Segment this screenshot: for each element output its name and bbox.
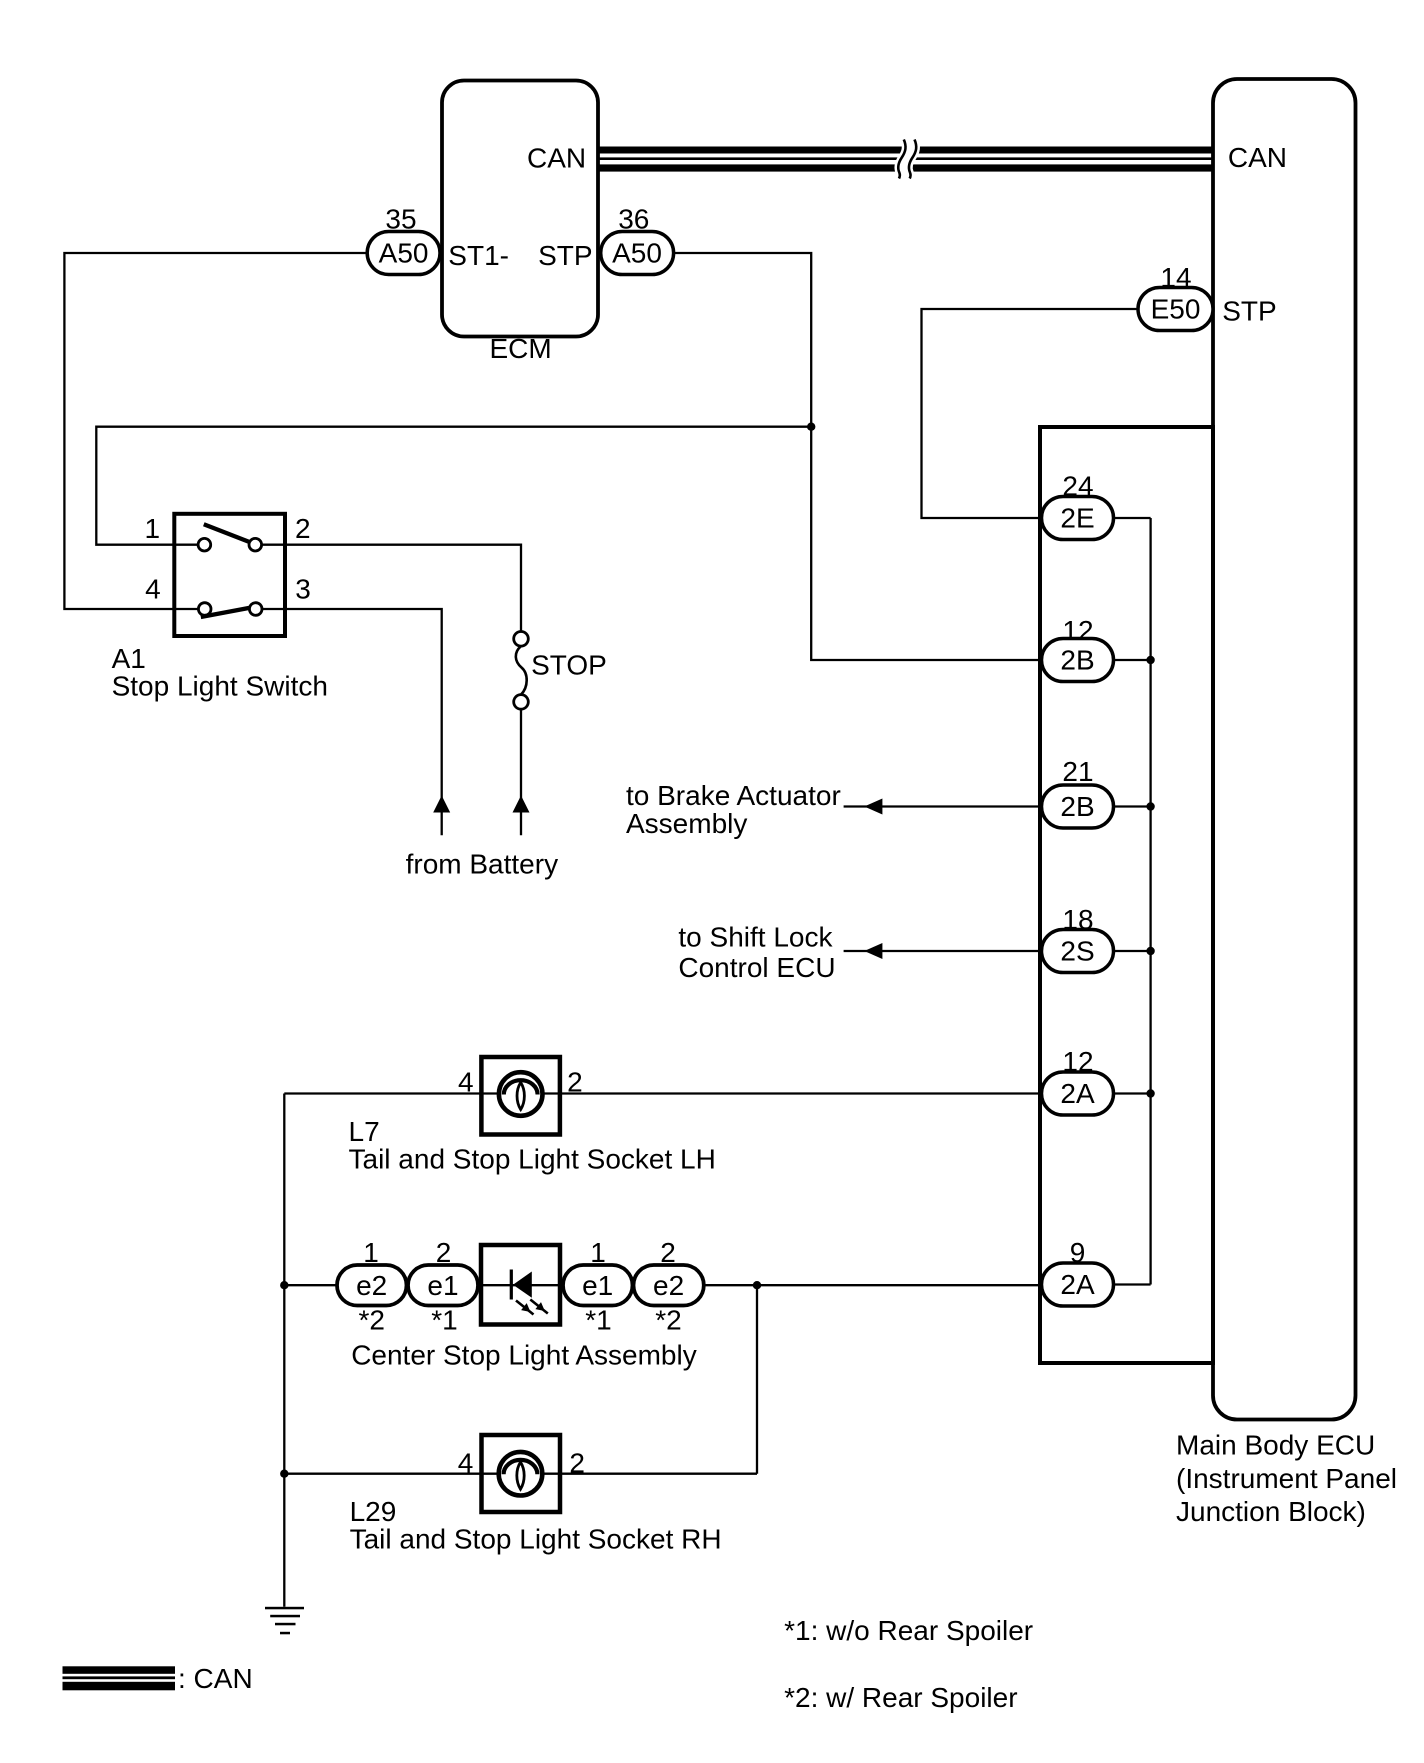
- svg-text:Junction Block): Junction Block): [1176, 1496, 1366, 1527]
- svg-text:2: 2: [295, 513, 311, 544]
- center stop light connector e2 pin 1: [337, 1265, 407, 1306]
- svg-text:CAN: CAN: [527, 143, 586, 174]
- CAN bus break squiggle left: [898, 140, 905, 179]
- svg-text:Main Body ECU: Main Body ECU: [1176, 1430, 1375, 1461]
- svg-text:3: 3: [295, 574, 311, 605]
- stop light switch A1 box: [174, 514, 285, 636]
- svg-text:Tail and Stop Light Socket LH: Tail and Stop Light Socket LH: [349, 1144, 716, 1175]
- connector E50 pin 14: [1138, 288, 1213, 331]
- wire switch pin 3 to battery arrow: [261, 609, 442, 835]
- svg-text:to Shift Lock: to Shift Lock: [678, 922, 833, 953]
- svg-text:2: 2: [569, 1448, 585, 1479]
- wire ST1- lead: A50 pin35 to stop light switch pin 4: [64, 253, 367, 609]
- svg-text:: CAN: : CAN: [178, 1663, 253, 1694]
- svg-text:*2: *2: [358, 1305, 384, 1336]
- svg-text:STP: STP: [538, 240, 592, 271]
- switch contact pin 3: [249, 603, 262, 616]
- svg-text:18: 18: [1062, 904, 1093, 935]
- svg-text:to Brake Actuator: to Brake Actuator: [626, 780, 841, 811]
- L29 bulb: [499, 1452, 543, 1496]
- connector 2A pin 9: [1042, 1263, 1114, 1306]
- connector A50 pin 35: [367, 232, 440, 275]
- svg-text:ECM: ECM: [490, 333, 552, 364]
- STOP fuse bottom circle: [514, 695, 529, 710]
- svg-text:e2: e2: [653, 1270, 684, 1301]
- svg-text:2E: 2E: [1060, 503, 1094, 534]
- junction dot inner rail 2B-12: [1146, 656, 1154, 664]
- svg-text:12: 12: [1062, 1046, 1093, 1077]
- svg-text:STP: STP: [1222, 296, 1276, 327]
- center stop light connector e1 pin 2: [408, 1265, 478, 1306]
- wire 2E stub: [1114, 517, 1151, 519]
- svg-text:*2: *2: [655, 1305, 681, 1336]
- junction dot right of center stop assembly: [753, 1281, 761, 1289]
- svg-text:1: 1: [145, 513, 161, 544]
- CAN legend symbol: [63, 1666, 176, 1690]
- junction dot inner rail 2A-12: [1146, 1089, 1154, 1097]
- wire 2S stub: [1114, 950, 1151, 952]
- svg-text:14: 14: [1160, 262, 1191, 293]
- arrow from battery left: [433, 796, 450, 813]
- L7 tail and stop light socket box: [481, 1057, 560, 1135]
- wire E50 STP to 2E: [922, 309, 1139, 518]
- svg-text:2A: 2A: [1060, 1078, 1095, 1109]
- svg-text:from Battery: from Battery: [406, 849, 558, 880]
- wire L29 row: [284, 1473, 757, 1475]
- wire left rail to ground: [283, 1094, 285, 1607]
- connector 2B pin 21: [1042, 785, 1114, 828]
- LED emission arrow 1: [516, 1301, 534, 1315]
- L7 bulb: [499, 1072, 543, 1116]
- wire inner rail: [1149, 518, 1151, 1285]
- CAN bus top bar: [598, 147, 1213, 154]
- svg-text:e1: e1: [427, 1270, 458, 1301]
- LED cathode bar: [510, 1270, 513, 1300]
- svg-text:9: 9: [1070, 1237, 1086, 1268]
- CAN bus break gap: [898, 140, 916, 179]
- svg-text:35: 35: [385, 204, 416, 235]
- connector 2A pin 12: [1042, 1072, 1114, 1115]
- svg-text:2: 2: [567, 1067, 583, 1098]
- arrow from battery right: [513, 796, 530, 813]
- junction dot left rail center stop row: [280, 1281, 288, 1289]
- svg-text:2B: 2B: [1060, 645, 1094, 676]
- svg-text:A1: A1: [112, 643, 146, 674]
- wire to shift lock ECU from 2S: [844, 950, 1042, 952]
- connector 2B pin 12: [1042, 639, 1114, 682]
- svg-text:Control ECU: Control ECU: [678, 952, 835, 983]
- STOP fuse S-curve: [516, 646, 527, 695]
- svg-text:Stop Light Switch: Stop Light Switch: [112, 671, 328, 702]
- svg-text:CAN: CAN: [1228, 142, 1287, 173]
- svg-text:*1: w/o Rear Spoiler: *1: w/o Rear Spoiler: [784, 1615, 1033, 1646]
- svg-text:2S: 2S: [1060, 936, 1094, 967]
- svg-text:Center Stop Light Assembly: Center Stop Light Assembly: [351, 1340, 697, 1371]
- L29 tail and stop light socket box: [482, 1435, 561, 1512]
- svg-text:Assembly: Assembly: [626, 808, 747, 839]
- svg-text:2: 2: [436, 1237, 452, 1268]
- wire 2A-12 stub: [1114, 1092, 1151, 1094]
- wire 2A-9 stub: [1114, 1283, 1151, 1285]
- wire center stop row to 2A-9: [284, 1284, 1041, 1286]
- switch lever pins 1-2: [204, 524, 249, 542]
- junction dot STP net: [807, 423, 815, 431]
- svg-text:4: 4: [145, 574, 161, 605]
- LED emission arrow 2: [530, 1300, 548, 1314]
- svg-text:A50: A50: [612, 238, 662, 269]
- svg-text:L7: L7: [349, 1116, 380, 1147]
- wire right rail: [756, 1285, 758, 1474]
- switch contact pin 1: [198, 538, 211, 551]
- center stop light connector e1 pin 1: [563, 1265, 633, 1306]
- CAN bus break squiggle right: [909, 140, 916, 179]
- svg-text:STOP: STOP: [531, 650, 607, 681]
- STOP fuse top circle: [514, 632, 529, 647]
- connector 2S pin 18: [1042, 930, 1114, 973]
- arrow to shift lock ECU: [864, 943, 882, 959]
- LED triangle: [513, 1272, 532, 1298]
- switch contact pin 4: [198, 603, 211, 616]
- svg-text:2A: 2A: [1060, 1269, 1095, 1300]
- wire switch pin 2 to STOP fuse: [261, 545, 521, 632]
- CAN bus bottom bar: [598, 164, 1213, 171]
- wire to brake actuator from 2B-21: [844, 805, 1042, 807]
- junction block box: [1040, 427, 1213, 1363]
- svg-text:E50: E50: [1151, 294, 1201, 325]
- svg-text:2B: 2B: [1060, 791, 1094, 822]
- L7 wire through box: [481, 1092, 560, 1094]
- wire 2B-12 stub: [1114, 659, 1151, 661]
- center stop light connector e2 pin 2: [634, 1265, 704, 1306]
- svg-text:1: 1: [590, 1237, 606, 1268]
- switch contact pin 2: [249, 538, 262, 551]
- LED wire through box: [481, 1284, 560, 1286]
- svg-text:21: 21: [1062, 756, 1093, 787]
- wire switch pin 1 to STP net: [96, 427, 811, 545]
- svg-text:4: 4: [458, 1448, 474, 1479]
- arrow to brake actuator: [864, 799, 882, 815]
- svg-text:24: 24: [1062, 471, 1093, 502]
- ECM box: [442, 81, 598, 337]
- L29 wire through box: [482, 1473, 561, 1475]
- svg-text:12: 12: [1062, 615, 1093, 646]
- svg-text:*1: *1: [585, 1305, 611, 1336]
- junction dot left rail L29 row: [280, 1470, 288, 1478]
- svg-text:Tail and Stop Light Socket RH: Tail and Stop Light Socket RH: [350, 1524, 722, 1555]
- svg-text:36: 36: [618, 204, 649, 235]
- CAN bus middle line: [598, 157, 1213, 160]
- svg-text:A50: A50: [379, 238, 429, 269]
- wire 2B-21 stub: [1114, 805, 1151, 807]
- ground: [265, 1607, 304, 1635]
- junction dot inner rail 2B-21: [1146, 802, 1154, 810]
- connector A50 pin 36: [601, 232, 674, 275]
- connector 2E pin 24: [1042, 497, 1114, 540]
- svg-text:L29: L29: [350, 1496, 397, 1527]
- svg-text:e1: e1: [582, 1270, 613, 1301]
- svg-text:*1: *1: [431, 1305, 457, 1336]
- svg-text:ST1-: ST1-: [448, 240, 509, 271]
- switch lever pins 4-3: [201, 608, 250, 617]
- svg-text:2: 2: [660, 1237, 676, 1268]
- wire STOP fuse to battery arrow: [520, 709, 522, 835]
- svg-text:*2: w/ Rear Spoiler: *2: w/ Rear Spoiler: [784, 1682, 1017, 1713]
- svg-text:e2: e2: [356, 1270, 387, 1301]
- wire STP: A50 pin36 down to 2B-12: [674, 253, 1042, 660]
- svg-text:(Instrument Panel: (Instrument Panel: [1176, 1463, 1397, 1494]
- center stop light LED box: [481, 1245, 560, 1325]
- svg-text:1: 1: [363, 1237, 379, 1268]
- wire L7 row to 2A-12: [284, 1092, 1041, 1094]
- junction dot inner rail 2S: [1146, 947, 1154, 955]
- svg-text:4: 4: [458, 1067, 474, 1098]
- Main Body ECU box: [1213, 79, 1356, 1420]
